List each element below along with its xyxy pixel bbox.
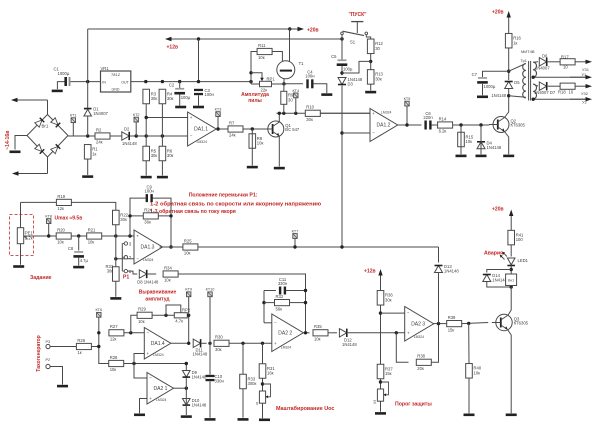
junction C11 right — [304, 289, 307, 292]
junction R27 node — [97, 331, 100, 334]
svg-text:30к: 30к — [375, 77, 382, 82]
svg-text:1N4007: 1N4007 — [535, 65, 550, 70]
ground at R40 — [464, 414, 475, 417]
svg-text:У1: У1 — [582, 72, 588, 77]
test point KT3 — [215, 108, 222, 117]
svg-text:Выравнивание: Выравнивание — [139, 289, 177, 295]
junction R15 top — [459, 123, 462, 126]
svg-text:R2: R2 — [96, 127, 102, 132]
resistor R31 16k — [259, 364, 275, 379]
svg-text:220п: 220п — [423, 115, 432, 120]
svg-text:КЗ: КЗ — [373, 400, 377, 404]
svg-text:КТ1: КТ1 — [70, 114, 77, 118]
svg-text:100н: 100н — [145, 189, 155, 194]
svg-text:"ПУСК": "ПУСК" — [348, 12, 367, 18]
arrow output U32 — [575, 84, 592, 88]
svg-text:R19: R19 — [57, 194, 65, 199]
svg-text:КТ4: КТ4 — [292, 89, 299, 93]
resistor R30 30k — [214, 335, 229, 352]
wire secondary1 top — [533, 61, 538, 63]
wire D8 to R34 — [148, 273, 157, 275]
wire DA1.2 minus — [342, 132, 370, 134]
svg-text:30к: 30к — [120, 217, 127, 222]
svg-text:−: − — [136, 256, 139, 261]
wire Q2 collector up — [505, 96, 509, 118]
resistor R25 10k — [183, 238, 198, 255]
wire D7 to R18 — [548, 85, 560, 87]
wire DA1.2 output — [398, 124, 422, 126]
svg-text:100н: 100н — [305, 74, 315, 79]
junction C10 KT10 node — [208, 342, 211, 345]
junction R8 top — [251, 127, 254, 130]
wire C11 line — [264, 290, 276, 292]
svg-text:R34: R34 — [164, 265, 172, 270]
wire R38 right up — [431, 324, 438, 363]
test point KT1 — [70, 114, 77, 123]
resistor R24 36k — [143, 207, 158, 224]
svg-text:DA2 3: DA2 3 — [411, 321, 425, 327]
svg-text:КТ2: КТ2 — [133, 113, 140, 117]
junction fb left column plus — [128, 234, 131, 237]
svg-text:Тахогенератор: Тахогенератор — [36, 335, 42, 371]
ground at Q3 — [506, 414, 517, 417]
svg-text:10к: 10к — [466, 139, 473, 144]
svg-text:LM324: LM324 — [414, 335, 424, 339]
wire DA2.2 output — [303, 332, 309, 334]
wire D1 column — [87, 29, 89, 136]
svg-text:330н: 330н — [278, 281, 288, 286]
wire KT10 stem — [209, 297, 211, 344]
test point KT5 — [404, 97, 411, 106]
junction DA1.2 minus tap — [340, 131, 343, 134]
svg-text:Р3: Р3 — [46, 340, 51, 344]
switch S1 — [341, 22, 368, 45]
svg-text:1000µ: 1000µ — [484, 84, 496, 89]
svg-text:Кн1: Кн1 — [508, 279, 514, 283]
wire D14 bottom branch — [487, 282, 511, 287]
transistor T1 — [277, 29, 304, 84]
svg-text:+: + — [190, 115, 193, 120]
ground at RE1 — [13, 265, 24, 268]
wire R16 down — [508, 48, 510, 80]
svg-text:R17: R17 — [561, 55, 569, 60]
junction relay top — [510, 268, 513, 271]
svg-text:10к: 10к — [164, 278, 171, 283]
svg-text:R24: R24 — [144, 207, 152, 212]
svg-text:1N4007: 1N4007 — [93, 111, 108, 116]
svg-text:У2: У2 — [582, 100, 588, 105]
junction DA2.2 out column — [304, 331, 307, 334]
ground at C8 — [73, 266, 84, 269]
resistor R8 10k — [249, 134, 263, 149]
wire AC input bottom with arrow — [12, 171, 48, 175]
junction D9 top — [185, 362, 188, 365]
svg-text:VR1: VR1 — [101, 66, 110, 71]
wire T1 node to R9 — [283, 84, 285, 92]
wire KT5 stem — [406, 106, 408, 125]
wire R20 to R21 — [71, 235, 87, 237]
capacitor C9 100n — [145, 185, 155, 203]
svg-text:D2: D2 — [124, 126, 130, 131]
junction R32 right — [304, 301, 307, 304]
wire bridge left to ground — [15, 136, 27, 150]
svg-text:КТ10: КТ10 — [206, 288, 215, 292]
svg-text:RP2: RP2 — [182, 308, 191, 313]
op-amp DA1.2 — [370, 109, 398, 142]
svg-text:МИТ4В: МИТ4В — [521, 49, 535, 54]
wire plus input line DA1.1 — [146, 117, 187, 119]
wire R26 to node — [91, 346, 98, 348]
svg-text:Авария: Авария — [484, 251, 503, 257]
svg-text:10к: 10к — [57, 240, 64, 245]
junction KT8 node — [47, 234, 50, 237]
junction D1 column at VR1 in — [86, 80, 89, 83]
wire R10 to DA1.2 plus — [320, 112, 370, 114]
svg-text:1N4007 D7: 1N4007 D7 — [534, 90, 556, 95]
capacitor C7 1000u — [472, 72, 496, 89]
diode D12 1N4148 — [339, 329, 346, 337]
wire Q1 emitter to ground — [278, 136, 280, 167]
transistor Q3 KT6305 — [492, 314, 529, 330]
svg-text:10: 10 — [563, 65, 568, 70]
junction KT5 on output — [405, 123, 408, 126]
svg-text:+20в: +20в — [307, 27, 319, 33]
wire KT1 stem — [72, 123, 74, 136]
wire R22 bottom lead — [115, 225, 117, 236]
svg-text:30к: 30к — [151, 96, 158, 101]
wire D12 to DA2.3 plus — [348, 332, 405, 334]
svg-text:10к: 10к — [258, 55, 265, 60]
wire +12 rail from VR1 — [131, 81, 251, 83]
wire R38 loop — [396, 333, 408, 363]
resistor R12 30 — [367, 39, 383, 54]
wire R32 right lead — [290, 302, 306, 304]
junction DA1.4 out — [187, 342, 190, 345]
svg-text:300к: 300к — [248, 381, 257, 386]
wire C3 column drop — [198, 39, 200, 81]
op-amp DA2.2 — [272, 314, 304, 352]
wire R19 right to R22 — [71, 202, 115, 210]
svg-text:30: 30 — [375, 46, 380, 51]
junction DA1.3 out fb — [169, 245, 172, 248]
wire C7 top lead — [483, 71, 509, 77]
svg-text:IN: IN — [102, 81, 106, 85]
svg-text:R18: R18 — [558, 90, 566, 95]
svg-text:КТ6305: КТ6305 — [511, 123, 526, 128]
resistor R13 30k — [367, 70, 383, 85]
svg-text:100: 100 — [516, 237, 524, 242]
junction R9 bottom — [282, 112, 285, 115]
wire RP2 right down — [187, 315, 188, 343]
diode D5 — [505, 80, 521, 89]
wire R19 left — [21, 201, 57, 203]
wire KT4 stem — [295, 98, 297, 114]
potentiometer RP2 4.7k — [174, 313, 187, 324]
resistor R4 30k — [159, 89, 173, 104]
wire Q3 emitter — [508, 330, 512, 414]
relay Kn1 — [506, 274, 517, 286]
svg-text:R30: R30 — [215, 335, 223, 340]
svg-text:1N4148: 1N4148 — [342, 342, 357, 347]
capacitor C2 100u — [169, 83, 191, 100]
wire P3 to R26 — [50, 346, 76, 348]
junction rail end — [288, 27, 291, 30]
diode D4 1N4148 — [477, 140, 502, 150]
junction secondary tap2 — [532, 98, 535, 101]
svg-text:R14: R14 — [439, 116, 447, 121]
svg-text:+: + — [407, 330, 410, 335]
svg-text:10к: 10к — [184, 251, 191, 256]
svg-text:КТ7: КТ7 — [292, 229, 299, 233]
wire R31 to trimmer — [262, 378, 264, 391]
svg-text:BC 547: BC 547 — [285, 127, 300, 132]
wire C3 to ground — [198, 95, 200, 105]
resistor R5 30k — [143, 146, 157, 161]
svg-text:15к: 15к — [385, 371, 392, 376]
diode D14 1N4148 — [483, 273, 508, 283]
wire RP2 wiper loop — [166, 305, 181, 315]
connector P3 — [46, 340, 51, 348]
wire KT6 stem — [98, 317, 100, 333]
wire D9 column top — [185, 364, 187, 371]
wire D13 down — [438, 273, 440, 324]
diode D13 1N4148 — [435, 264, 460, 274]
ground at R33 — [110, 297, 121, 300]
resistor R38 20k — [416, 354, 431, 371]
wire C9 loop — [130, 198, 146, 236]
svg-text:30к: 30к — [107, 269, 114, 274]
wire R31 top lead — [262, 343, 264, 363]
transformer Tr1 MIT4V — [521, 49, 537, 100]
wire secondary bottom tap U2 — [533, 98, 585, 100]
op-amp DA2.1 — [147, 373, 173, 405]
wire bridge bottom to AC line — [47, 157, 49, 174]
resistor R16 1k — [505, 33, 521, 48]
test point KT4 — [292, 89, 299, 98]
junction rail end right — [249, 80, 252, 83]
ground at R33b — [238, 418, 249, 421]
svg-text:D8 1N4148: D8 1N4148 — [137, 279, 159, 284]
svg-text:амплитуд: амплитуд — [145, 296, 170, 302]
svg-text:30к: 30к — [151, 153, 158, 158]
svg-text:Umax ≈9.5в: Umax ≈9.5в — [55, 216, 83, 222]
svg-text:1к: 1к — [92, 151, 96, 156]
resistor R26 1k — [76, 338, 91, 355]
svg-text:1-3 обратная связь по току яко: 1-3 обратная связь по току якоря — [150, 208, 236, 215]
svg-text:24к: 24к — [96, 140, 103, 145]
junction VR1 out — [144, 80, 147, 83]
ground at R15 — [456, 155, 467, 158]
resistor R41 100 — [508, 230, 524, 245]
ground at trimmer — [259, 419, 270, 422]
resistor R14 6.2k — [438, 116, 453, 133]
svg-text:+: + — [149, 396, 152, 401]
wire secondary2 top — [533, 84, 538, 86]
resistor R35 10k — [313, 324, 328, 341]
wire R41 to LED — [510, 245, 512, 257]
ground at R5 — [141, 176, 152, 179]
junction raw DC at D1 — [86, 134, 89, 137]
junction R32 left — [262, 301, 265, 304]
svg-text:10к: 10к — [88, 240, 95, 245]
potentiometer RP1 22k — [260, 81, 272, 92]
wire +20 unreg rail — [88, 28, 290, 30]
ground at D4 — [476, 155, 487, 158]
wire D11 to R30 — [202, 342, 207, 344]
wire R35 to D12 — [328, 332, 337, 334]
junction snubber top — [507, 70, 510, 73]
junction KT3 on output — [216, 127, 219, 130]
ground at C1 — [52, 90, 63, 93]
svg-text:+: + — [274, 341, 277, 346]
capacitor C1 1000u — [54, 66, 71, 86]
resistor R18 10 — [560, 83, 575, 89]
arrow output U2 — [570, 97, 592, 101]
resistor R27 12k — [109, 324, 124, 341]
wire corner down to D13 — [438, 247, 440, 263]
resistor R22 30k — [113, 210, 129, 225]
svg-text:16к: 16к — [267, 371, 274, 376]
resistor R17 10 — [560, 59, 575, 65]
svg-text:1-2 обратная связь по скорости: 1-2 обратная связь по скорости или якорн… — [150, 201, 321, 208]
wire Q1 collector — [278, 113, 280, 122]
svg-text:LM324: LM324 — [143, 258, 153, 262]
svg-text:~14-16в: ~14-16в — [5, 131, 11, 151]
wire C2 to ground — [179, 95, 181, 106]
resistor R36 30k — [377, 291, 393, 306]
wire D9 to node — [185, 378, 187, 388]
svg-text:−: − — [274, 320, 277, 325]
svg-text:КТ9: КТ9 — [185, 288, 192, 292]
wire R30 line to DA2.2 plus — [229, 342, 272, 344]
resistor R9 30 — [281, 91, 294, 104]
wire DA2.1 plus to ground — [140, 399, 148, 414]
arrow +20v alarm — [509, 210, 513, 231]
capacitor C11 330n — [278, 277, 288, 295]
svg-text:4.7µ: 4.7µ — [80, 258, 89, 263]
wire RP1 wiper lead — [251, 73, 262, 78]
junction R3 R5 tap — [145, 116, 148, 119]
junction R40 top — [467, 322, 470, 325]
junction RP2 right — [187, 314, 190, 317]
wire R1 to ground — [87, 159, 89, 175]
capacitor C5 100u — [331, 54, 353, 71]
junction R4 column on minus line — [145, 134, 148, 137]
wire C6 to R14 — [432, 124, 438, 126]
svg-text:Задание: Задание — [30, 275, 52, 281]
wire bridge plus node — [68, 135, 188, 137]
wire KT7 long line — [198, 246, 439, 248]
junction RP1 wiper — [249, 71, 252, 74]
svg-text:−: − — [147, 330, 150, 335]
svg-text:24к: 24к — [229, 133, 236, 138]
resistor R2 24k — [95, 127, 110, 144]
wire AC input top with arrow — [11, 98, 48, 102]
test point KT7 — [292, 229, 299, 238]
svg-text:DA1.1: DA1.1 — [194, 127, 208, 133]
wire R12 to R13 — [370, 54, 372, 70]
wire KT9 stem — [188, 297, 190, 316]
wire +12 rail arrow — [165, 37, 342, 41]
svg-text:4.7к: 4.7к — [175, 319, 183, 324]
svg-text:6.2к: 6.2к — [439, 129, 447, 134]
svg-text:+: + — [147, 351, 150, 356]
junction secondary tap1 — [532, 76, 535, 79]
svg-text:1N4148: 1N4148 — [444, 269, 459, 274]
wire R8 leads — [251, 129, 253, 166]
resistor R1 1k — [84, 145, 98, 160]
svg-text:30: 30 — [288, 97, 293, 102]
junction mid node x134 — [132, 362, 135, 365]
wire node to DA2.3 minus — [381, 312, 405, 314]
svg-text:10к: 10к — [138, 319, 145, 324]
wire R40 to ground — [468, 378, 470, 413]
arrow output U1 — [570, 75, 592, 79]
op-amp DA1.1 — [188, 112, 217, 146]
wire C2 stem — [179, 82, 181, 88]
wiper RE1 — [24, 236, 28, 239]
arrow +20v output stage — [507, 11, 511, 34]
svg-text:1N4148: 1N4148 — [193, 352, 208, 357]
op-amp DA1.4 — [144, 328, 170, 360]
wire R29 left drop — [131, 315, 137, 333]
wire C11 right — [286, 290, 306, 292]
resistor R37 15k — [377, 364, 393, 379]
wire primary bottom lead — [509, 96, 526, 98]
resistor R29 10k — [137, 307, 152, 324]
svg-text:−: − — [190, 134, 193, 139]
junction R33b top — [241, 342, 244, 345]
ground at DA2.1 plus — [134, 414, 145, 417]
arrow +12v protection — [378, 269, 382, 290]
ground at C10 — [205, 418, 216, 421]
wire RP1 left — [251, 83, 260, 85]
wire R33 to ground — [115, 282, 117, 297]
wire R7 to Q1 base — [243, 128, 266, 130]
diode D7 1N4007 — [539, 82, 546, 90]
svg-text:GND: GND — [112, 88, 120, 92]
svg-text:30к: 30к — [167, 96, 174, 101]
wire DA1.1 output — [216, 128, 228, 130]
diode D10 1N4148 — [183, 398, 207, 408]
wire node to DA2.1 minus — [134, 364, 147, 379]
junction T1 base node — [282, 82, 285, 85]
wire RE1 top to R19 — [20, 202, 22, 227]
svg-text:DA2 1: DA2 1 — [154, 386, 168, 392]
junction C3 top — [197, 80, 200, 83]
svg-text:T1: T1 — [299, 61, 305, 66]
ground at R8 — [247, 166, 258, 169]
diode D2 1N4148 — [122, 126, 138, 146]
svg-text:R27: R27 — [110, 324, 118, 329]
wire D4 leads — [480, 125, 482, 154]
svg-text:R28: R28 — [110, 355, 118, 360]
svg-text:1000µ: 1000µ — [58, 71, 70, 76]
wire R24 line — [130, 215, 171, 217]
svg-text:20к: 20к — [417, 366, 424, 371]
wire KT8 stem — [48, 224, 50, 237]
wire DA2.2 minus — [264, 322, 272, 324]
svg-text:C2: C2 — [169, 83, 175, 88]
ground at P2 — [57, 385, 68, 388]
ground at trimmer2 — [375, 412, 386, 415]
capacitor C8 4.7u — [68, 246, 89, 263]
junction C2 top — [178, 80, 181, 83]
junction KT4 stem — [294, 112, 297, 115]
svg-text:−: − — [407, 311, 410, 316]
wire R5 leads — [145, 136, 147, 146]
svg-text:DA2 2: DA2 2 — [278, 330, 292, 336]
